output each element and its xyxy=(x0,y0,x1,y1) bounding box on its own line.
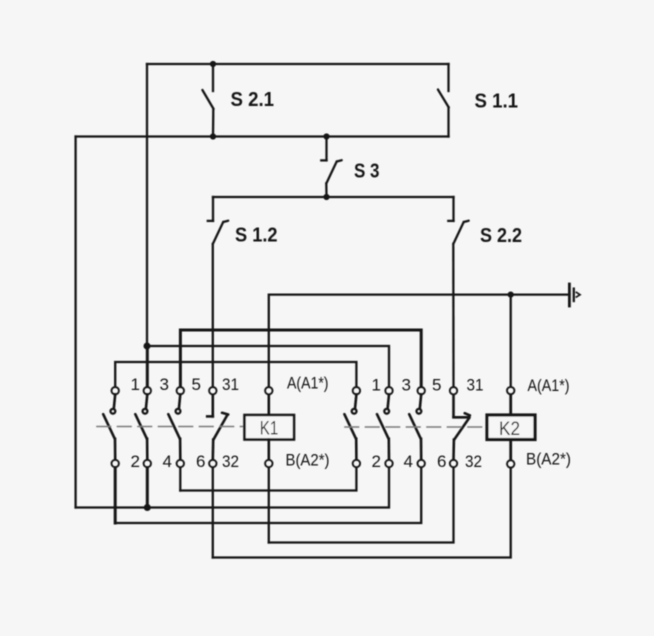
svg-text:2: 2 xyxy=(372,452,381,471)
node junction line-B on K1-3 column xyxy=(144,343,151,350)
svg-text:S 3: S 3 xyxy=(354,161,380,183)
wire link K1-1 to K2-1 xyxy=(115,362,356,387)
svg-text:S 1.1: S 1.1 xyxy=(475,91,519,113)
svg-text:3: 3 xyxy=(402,376,411,395)
svg-text:31: 31 xyxy=(222,375,239,394)
svg-text:4: 4 xyxy=(404,452,413,471)
svg-text:1: 1 xyxy=(372,376,381,395)
svg-text:5: 5 xyxy=(192,375,201,394)
contact K1 5-6 xyxy=(168,387,184,467)
wire second bus y=136.5 xyxy=(76,135,449,137)
svg-text:6: 6 xyxy=(196,452,205,471)
switch S1.2 xyxy=(208,197,228,244)
svg-text:1: 1 xyxy=(131,375,140,394)
svg-text:A(A1*): A(A1*) xyxy=(287,374,329,393)
wire left outer vertical xyxy=(74,137,76,508)
switch S2.2 xyxy=(448,197,468,244)
svg-text:B(A2*): B(A2*) xyxy=(526,450,571,469)
node junction S2.1 top xyxy=(210,61,216,67)
wire bus K1-B to K2-32 xyxy=(269,468,454,543)
wire third bus y=197 xyxy=(213,196,454,198)
wire S1.2 down to K1 terminal 31 xyxy=(212,244,214,387)
wire K1-B down xyxy=(268,468,270,543)
svg-text:5: 5 xyxy=(432,376,441,395)
switch S3 xyxy=(321,137,341,184)
wire K1-6 down xyxy=(179,468,181,491)
wire ground line with drop to K1 coil A xyxy=(269,295,570,387)
contact K1 31-32 xyxy=(207,387,228,467)
dashed mechanical linkage K2 xyxy=(345,426,487,428)
contact K1 1-2 xyxy=(103,387,119,467)
svg-text:K2: K2 xyxy=(499,419,520,440)
node junction K2 coil A on ground line xyxy=(508,292,514,298)
wire K2 coil A column xyxy=(510,295,512,387)
wire K1-3 column lower part bold xyxy=(146,346,149,387)
wire top bus y=64 xyxy=(147,63,449,65)
svg-text:32: 32 xyxy=(222,452,239,471)
contact K2 1-2 xyxy=(344,387,360,467)
node junction S3 bottom xyxy=(323,194,329,200)
dashed mechanical linkage K1 xyxy=(97,426,245,428)
svg-text:31: 31 xyxy=(467,376,484,395)
svg-text:3: 3 xyxy=(160,375,169,394)
svg-text:K1: K1 xyxy=(260,419,279,440)
wire K1 contact-3 column from top bus xyxy=(146,64,148,346)
svg-text:B(A2*): B(A2*) xyxy=(286,451,330,470)
svg-text:S 2.1: S 2.1 xyxy=(231,89,275,111)
node junction K1-4 on bus xyxy=(144,504,151,511)
wire bold link K1-5 to K2-5 xyxy=(180,330,421,387)
coil K2 xyxy=(487,387,535,468)
wire K1-2 bold down xyxy=(114,468,117,523)
svg-text:S 1.2: S 1.2 xyxy=(235,225,278,247)
switch S2.1 xyxy=(202,64,213,137)
svg-text:S 2.2: S 2.2 xyxy=(480,225,522,247)
wire K1-32 down xyxy=(212,468,214,558)
node junction S3 top xyxy=(323,133,329,139)
wire K1-4 bold down xyxy=(146,468,149,508)
contact K2 5-6 xyxy=(409,387,425,467)
wire bus outer-left to K2-4 xyxy=(76,468,389,508)
ground chassis symbol xyxy=(569,284,580,306)
wire bus K1-6 to K2-2 xyxy=(180,468,356,491)
wire link K1-3 to K2-3 xyxy=(147,346,389,387)
svg-text:4: 4 xyxy=(163,452,172,471)
contact K1 3-4 xyxy=(135,387,151,467)
svg-text:2: 2 xyxy=(131,452,140,471)
svg-text:32: 32 xyxy=(465,452,482,471)
coil K1 xyxy=(245,387,295,467)
wire bus K1-2 to K2-6 xyxy=(115,468,421,523)
contact K2 31-32 xyxy=(450,387,470,467)
node junction S2.1 bottom xyxy=(210,133,216,139)
wire S2.2 down to K2 terminal 31 xyxy=(452,244,455,387)
wire S3 lower lead xyxy=(325,184,328,198)
switch S1.1 xyxy=(438,64,449,137)
wire bus K1-32 to K2-B xyxy=(213,468,511,557)
svg-text:6: 6 xyxy=(437,452,446,471)
svg-text:A(A1*): A(A1*) xyxy=(528,376,570,395)
contact K2 3-4 xyxy=(377,387,393,467)
